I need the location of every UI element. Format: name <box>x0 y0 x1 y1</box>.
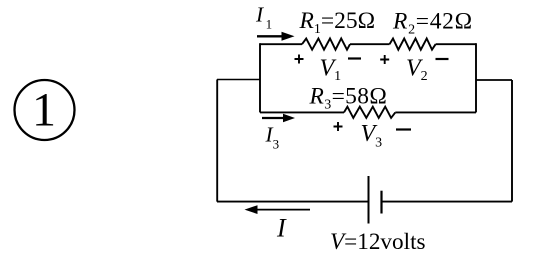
svg-text:V1: V1 <box>320 55 342 84</box>
svg-text:1: 1 <box>32 84 56 137</box>
svg-text:R1=25Ω: R1=25Ω <box>299 8 376 37</box>
svg-text:R3=58Ω: R3=58Ω <box>309 83 388 112</box>
polarity minus of V2 <box>436 58 449 60</box>
current arrow I1 <box>257 32 295 41</box>
resistor R1 <box>302 39 350 50</box>
svg-text:I1: I1 <box>255 3 272 32</box>
svg-text:I3: I3 <box>265 123 280 152</box>
resistor R2 <box>390 39 436 50</box>
svg-text:V3: V3 <box>361 121 383 151</box>
problem number badge 1 <box>15 80 75 140</box>
current arrow I <box>245 205 311 214</box>
wire inner right vertical <box>475 43 477 112</box>
wire outer left vertical <box>216 80 218 202</box>
svg-text:I: I <box>276 214 287 243</box>
svg-text:R2=42Ω: R2=42Ω <box>392 8 473 37</box>
polarity plus of V3 <box>334 122 343 131</box>
svg-text:V2: V2 <box>406 55 428 84</box>
wire middle branch right segment <box>395 111 476 113</box>
polarity plus of V1 <box>295 55 304 64</box>
polarity plus of V2 <box>380 55 389 64</box>
polarity minus of V1 <box>348 57 361 59</box>
wire right connector <box>476 79 512 81</box>
battery V short plate <box>380 191 382 214</box>
wire bottom right segment <box>382 201 513 203</box>
svg-text:V=12volts: V=12volts <box>330 229 426 255</box>
wire top branch left segment <box>260 43 302 45</box>
polarity minus of V3 <box>396 128 411 130</box>
resistor R3 <box>344 107 395 118</box>
battery V long plate <box>368 176 370 224</box>
wire bottom left segment <box>217 201 369 203</box>
wire between R1 and R2 <box>350 43 390 45</box>
wire outer right vertical <box>511 80 513 202</box>
current arrow I3 <box>262 114 295 122</box>
wire top branch right segment <box>436 43 476 45</box>
wire left connector <box>217 79 260 81</box>
wire inner left vertical <box>259 43 261 112</box>
wire middle branch left segment <box>260 111 344 113</box>
